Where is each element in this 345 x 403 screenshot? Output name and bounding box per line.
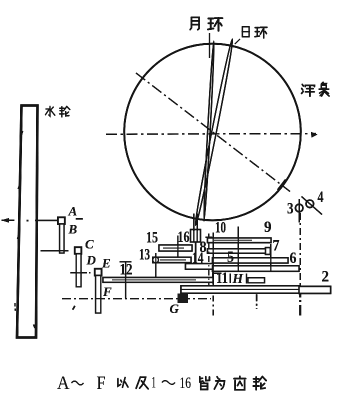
horizontal dash-dot center line xyxy=(106,133,316,136)
long bottom bar (gear 1 train) xyxy=(181,286,300,293)
caption xyxy=(57,373,266,394)
svg-text:11: 11 xyxy=(216,270,228,287)
gear 7 end square xyxy=(266,248,271,255)
axis of D xyxy=(70,272,90,274)
svg-text:4: 4 xyxy=(318,189,324,206)
svg-text:B: B xyxy=(68,222,78,237)
arrow end of center line xyxy=(311,132,318,138)
sun ring leader tick xyxy=(235,39,240,44)
axis x213.2 xyxy=(212,233,214,295)
gear 2 bar xyxy=(299,286,331,293)
shaft F xyxy=(96,276,101,314)
svg-text:13: 13 xyxy=(139,247,150,264)
small cross on axis xyxy=(205,234,212,242)
label 水轮 xyxy=(45,106,69,116)
gear 5 bar xyxy=(213,258,289,263)
stub below x213 xyxy=(212,296,214,319)
svg-text:H: H xyxy=(232,271,244,286)
svg-text:F: F xyxy=(97,373,106,394)
gear 9/10 bar xyxy=(208,238,272,243)
ring seat (shaft top) xyxy=(194,214,197,232)
label 日环 xyxy=(242,27,267,38)
sun ring (edge-on ellipse) xyxy=(193,39,234,226)
gear 15 bar xyxy=(159,245,192,251)
svg-text:G: G xyxy=(170,301,180,316)
axis x270.8 xyxy=(270,244,272,272)
svg-text:15: 15 xyxy=(146,230,158,247)
label 浑象 xyxy=(302,82,330,96)
wheel rim dash marks xyxy=(14,303,16,311)
gear G filled square xyxy=(178,294,189,304)
svg-text:F: F xyxy=(102,284,112,299)
water wheel 水轮 xyxy=(17,106,38,338)
svg-text:16: 16 xyxy=(180,375,192,392)
gear A square xyxy=(58,217,65,224)
bevel gear 3 xyxy=(295,204,303,212)
svg-text:3: 3 xyxy=(287,201,294,218)
svg-text:C: C xyxy=(85,237,94,252)
stub x256.6 xyxy=(256,294,258,309)
gear 12 bar xyxy=(103,278,213,283)
axis x178 xyxy=(177,236,179,263)
shaft B xyxy=(60,224,64,253)
svg-text:A: A xyxy=(68,204,78,219)
gear E square xyxy=(95,269,102,276)
gear 13 bar xyxy=(153,257,191,262)
main shaft lower xyxy=(195,242,197,262)
axle circle of 13 xyxy=(153,257,159,263)
gear 8/7 bar xyxy=(208,249,267,253)
axis of B xyxy=(41,250,69,252)
label 月环 xyxy=(190,17,222,31)
celestial globe circle 浑象 xyxy=(124,44,301,221)
gear 16 hatched box xyxy=(191,230,201,243)
svg-text:5: 5 xyxy=(227,249,234,266)
wheel axle line with arrow xyxy=(2,219,15,221)
axis x238.3 xyxy=(237,227,239,272)
tick on polar axis xyxy=(278,179,286,189)
gear 6 bar xyxy=(213,266,300,272)
svg-text:8: 8 xyxy=(200,239,207,256)
comma mark xyxy=(73,306,75,310)
diagonal dash-dot polar axis xyxy=(136,73,290,192)
gear 14 hub bar xyxy=(186,264,214,270)
dash after A xyxy=(76,218,83,220)
svg-text:1: 1 xyxy=(152,375,156,392)
svg-text:6: 6 xyxy=(290,250,297,267)
tick above 12 xyxy=(120,261,132,263)
gear C square xyxy=(75,247,82,254)
axis x208.8 dash-dot xyxy=(208,243,210,295)
axis x155.8 xyxy=(155,253,157,283)
svg-text:A: A xyxy=(57,373,70,394)
axis x125.6 xyxy=(125,263,127,299)
svg-text:E: E xyxy=(101,256,111,271)
svg-text:10: 10 xyxy=(215,220,226,237)
axis x300.3 dash-dot with 1 stub xyxy=(299,213,301,285)
svg-text:7: 7 xyxy=(273,238,280,255)
bevel gear 4 xyxy=(306,200,314,208)
svg-text:16: 16 xyxy=(178,229,190,246)
svg-text:D: D xyxy=(86,253,97,268)
moon ring pointer line xyxy=(209,33,211,58)
axis of F / bottom dash-dot line xyxy=(62,298,211,300)
gear 11 row xyxy=(212,272,214,283)
svg-text:2: 2 xyxy=(322,269,330,286)
moon ring (edge-on ellipse) xyxy=(203,41,215,221)
shaft D xyxy=(76,254,81,287)
svg-text:9: 9 xyxy=(264,219,272,236)
